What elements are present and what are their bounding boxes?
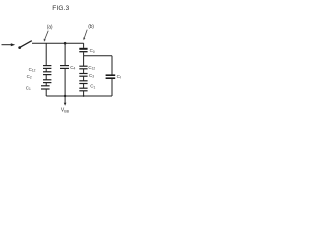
capacitor C12 (left column top) [43, 66, 51, 69]
svg-text:Cl: Cl [117, 74, 121, 79]
capacitor (right column bottom) [79, 88, 87, 91]
svg-text:VBB: VBB [61, 108, 70, 114]
switch S pivot dot [18, 46, 21, 49]
wire: left column vertical segments (x=46.2) [45, 43, 47, 96]
svg-text:C12: C12 [29, 67, 36, 73]
svg-text:C3: C3 [89, 73, 94, 79]
capacitor C3 (right column) [79, 74, 87, 77]
capacitor (right column third) [79, 81, 87, 84]
svg-text:C12: C12 [88, 65, 95, 71]
switch blade [20, 41, 31, 47]
svg-text:(b): (b) [88, 24, 94, 30]
svg-text:C1: C1 [90, 84, 95, 90]
bottom wire [46, 95, 112, 97]
svg-text:FIG.3: FIG.3 [52, 5, 69, 12]
svg-text:C1: C1 [26, 85, 31, 91]
capacitor (left column third, unlabeled) [43, 80, 51, 83]
svg-text:C0: C0 [90, 48, 95, 54]
leader arrow to node b [83, 30, 87, 41]
wire: right branch vertical segments (x=112) [111, 56, 113, 96]
wire: right column vertical segments (x=83.6) [83, 43, 85, 96]
input arrow [2, 43, 16, 46]
node wire (b) to right branch [84, 55, 112, 57]
junction dot right column bottom [83, 95, 85, 97]
capacitor C12 (right column) [79, 66, 87, 69]
junction dot node between C4 branch and rail [64, 42, 67, 45]
capacitor C2 (left column second) [43, 72, 51, 75]
svg-text:(a): (a) [47, 24, 53, 30]
svg-text:C4: C4 [70, 65, 75, 71]
capacitor C4 (middle column) [60, 66, 69, 69]
leader arrow to node a [44, 31, 49, 42]
capacitor C0 (top of right column) [79, 49, 87, 52]
top rail wire (a)-(b) [32, 42, 84, 44]
capacitor C1 (left column bottom) [41, 86, 50, 89]
junction dot at VBB node [64, 95, 66, 97]
wire: middle column vertical (x=65.1) [64, 43, 66, 96]
svg-text:C2: C2 [27, 74, 32, 80]
capacitor CL (right branch) [106, 75, 116, 78]
VBB output stub [64, 96, 67, 106]
